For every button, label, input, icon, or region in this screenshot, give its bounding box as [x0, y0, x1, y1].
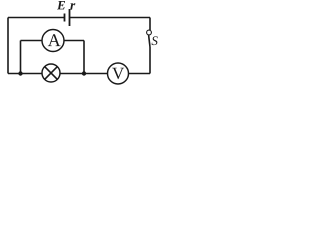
wire right side upper	[149, 18, 151, 31]
voltmeter letter V	[112, 68, 124, 79]
voltmeter V circle	[108, 63, 129, 84]
wire top-right	[70, 17, 150, 19]
label E	[57, 1, 65, 9]
wire bottom left segment	[8, 73, 42, 75]
ammeter letter A	[48, 34, 61, 46]
wire left side	[7, 18, 9, 74]
battery cell E r	[65, 9, 70, 26]
ammeter branch left vertical wire	[20, 41, 22, 74]
junction dot left	[18, 71, 22, 75]
wire top-left	[8, 17, 64, 19]
junction dot right	[82, 71, 86, 75]
wire right side lower	[149, 47, 151, 74]
switch S circle	[147, 30, 152, 35]
ammeter branch right vertical wire	[83, 41, 85, 74]
ammeter branch right horizontal wire	[64, 40, 84, 42]
wire bottom right segment	[129, 73, 151, 75]
wire bottom middle segment	[60, 73, 108, 75]
ammeter branch left horizontal wire	[21, 40, 43, 42]
label r	[70, 3, 75, 9]
label S	[152, 36, 158, 45]
ammeter A circle	[42, 30, 64, 52]
lamp circle	[42, 64, 60, 82]
switch S blade	[149, 35, 150, 47]
lamp X cross	[45, 67, 58, 80]
